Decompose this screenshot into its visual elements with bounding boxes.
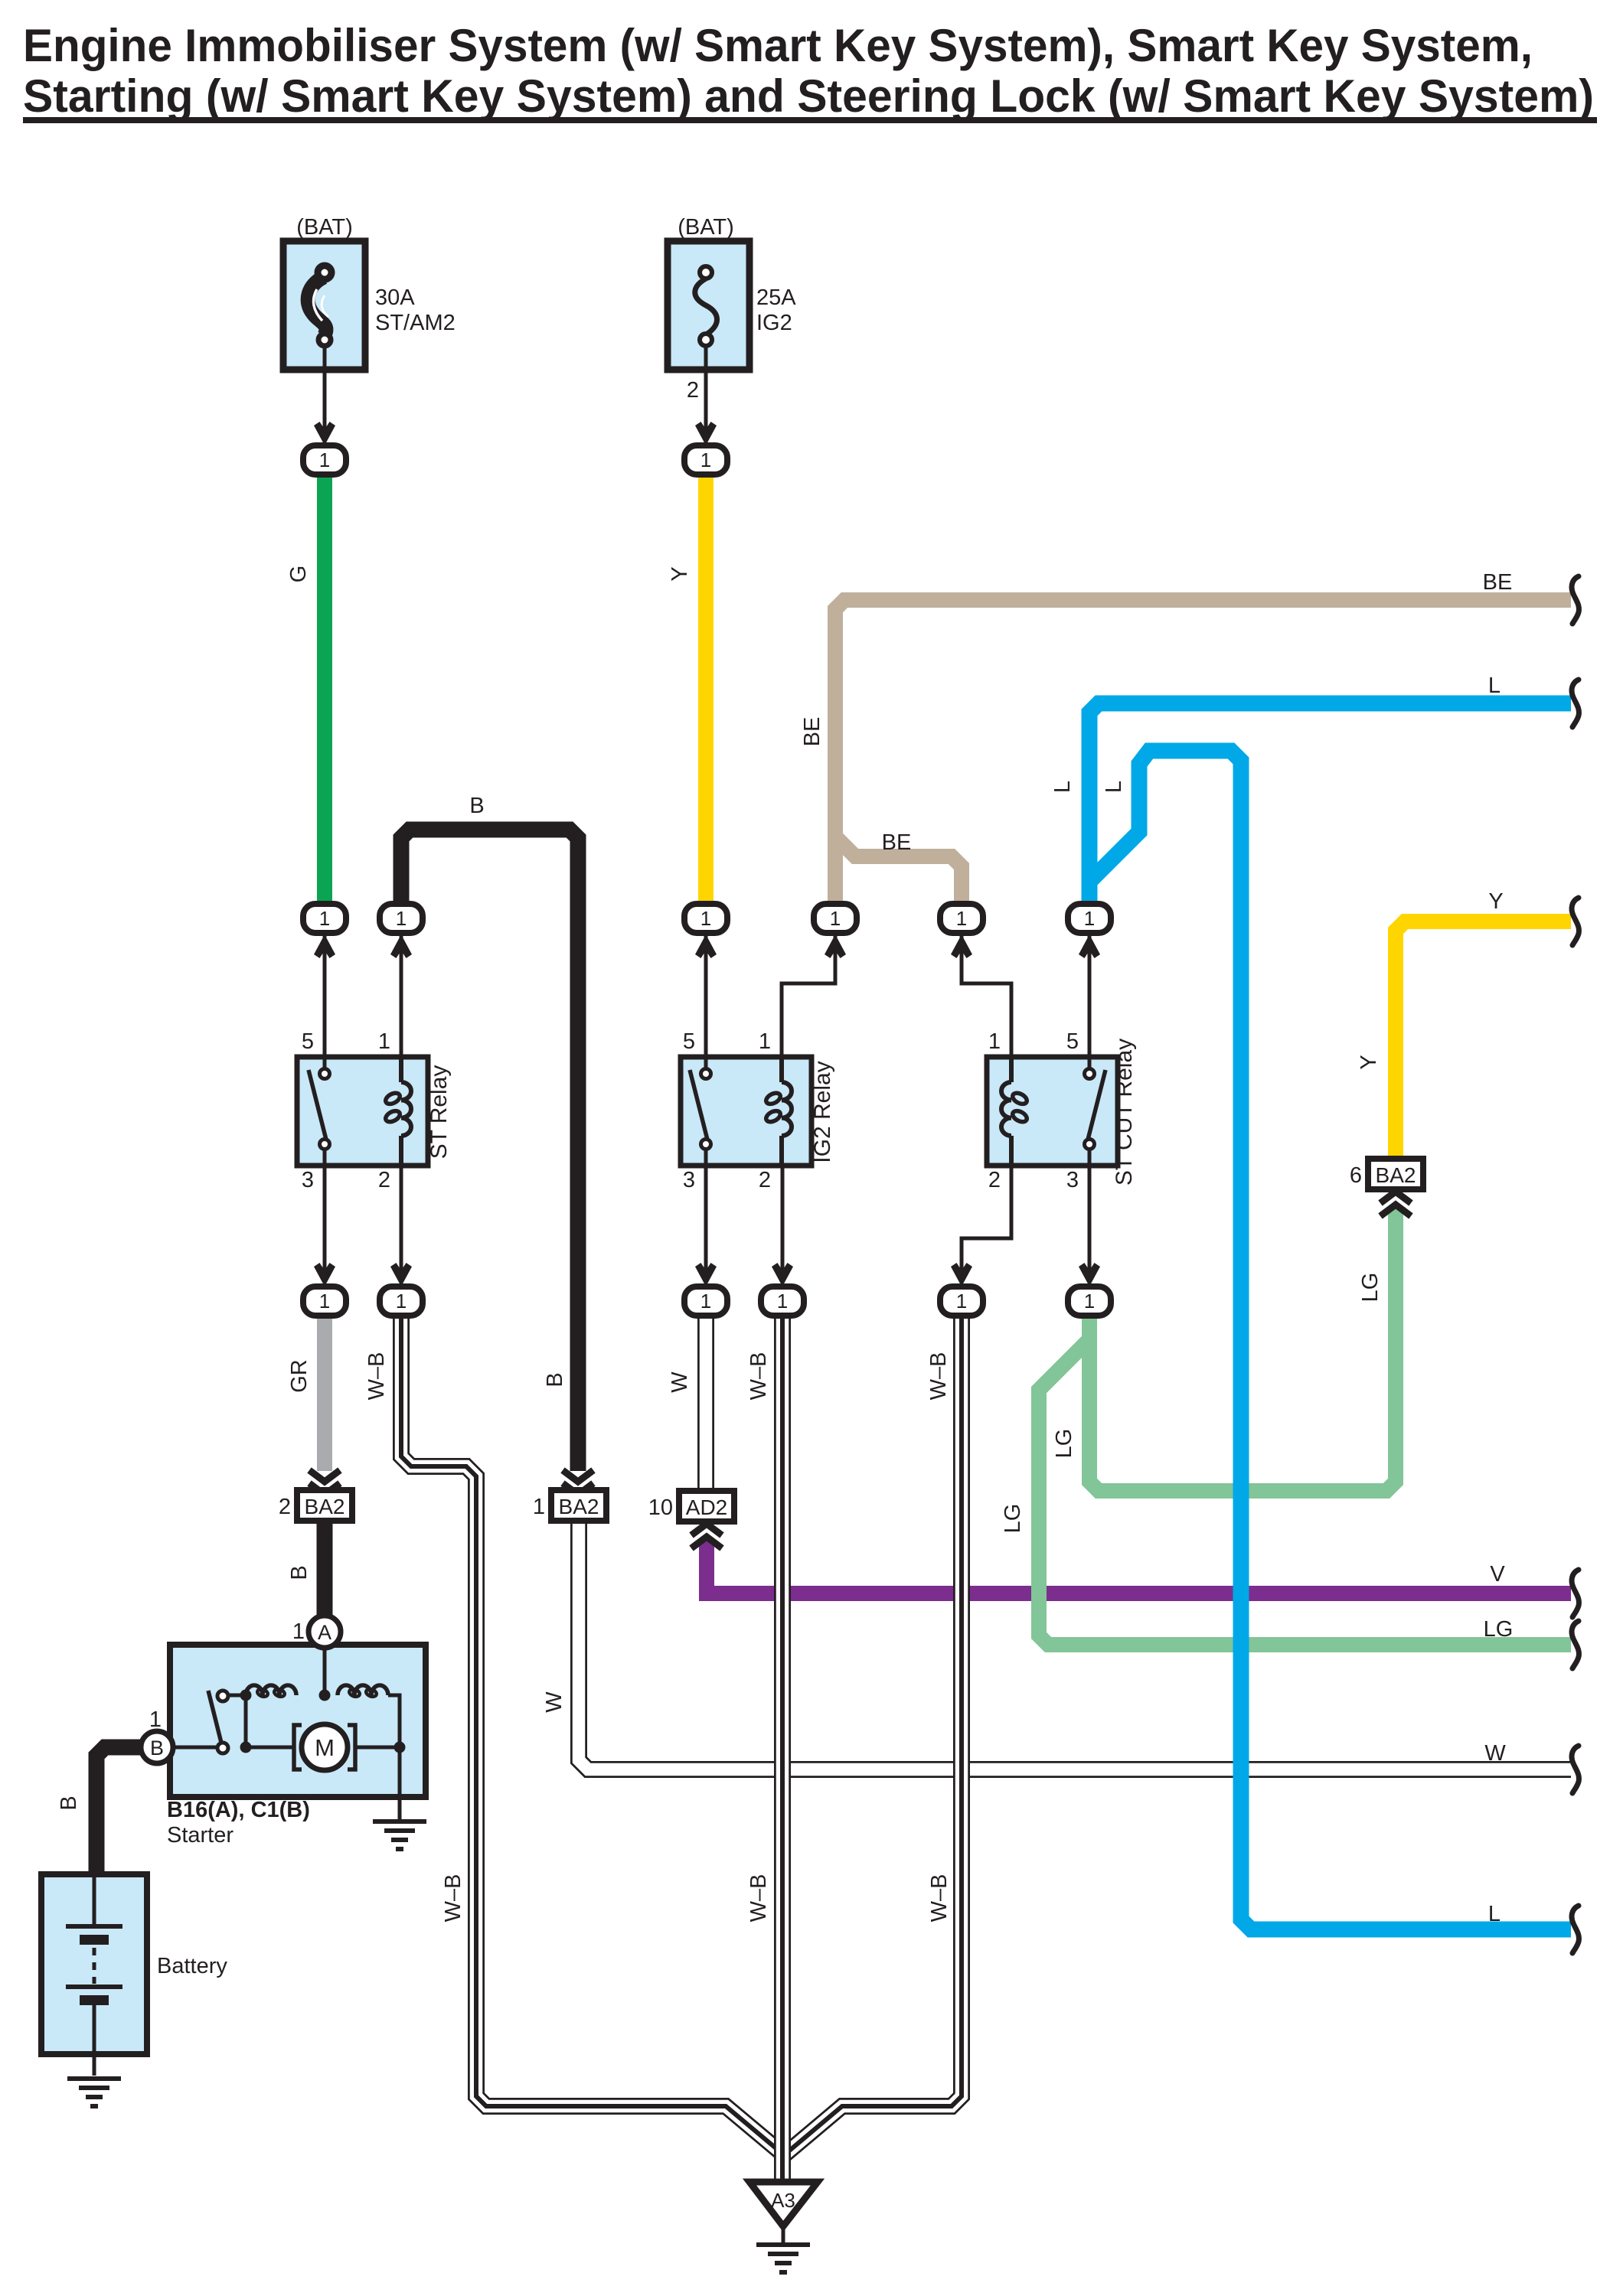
wire W white from 1 BA2 to right edge [579, 1520, 1571, 1769]
svg-text:2: 2 [687, 378, 699, 403]
relay ST CUT Relay [987, 1057, 1118, 1166]
wire W-B from ST relay connector to ground A3 [401, 1314, 782, 2154]
svg-text:2: 2 [378, 1168, 390, 1192]
svg-text:Starter: Starter [167, 1823, 233, 1848]
svg-text:Starting (w/ Smart Key System): Starting (w/ Smart Key System) and Steer… [23, 70, 1594, 122]
svg-text:5: 5 [302, 1029, 314, 1054]
wire IG2 relay pin 2 to connector [781, 1166, 785, 1270]
break squiggle Y [1572, 898, 1579, 945]
svg-text:LG: LG [1358, 1273, 1383, 1303]
break squiggle W [1572, 1746, 1579, 1793]
svg-text:A3: A3 [771, 2189, 795, 2212]
connector 1 row2 x1256 [940, 904, 983, 933]
svg-text:B: B [469, 794, 484, 818]
svg-text:LG: LG [1052, 1429, 1076, 1459]
svg-text:1: 1 [988, 1029, 1001, 1054]
battery [41, 1874, 147, 2076]
svg-text:1: 1 [759, 1029, 771, 1054]
svg-text:BE: BE [800, 717, 825, 747]
svg-text:W–B: W–B [441, 1874, 465, 1923]
fuse 25A IG2 [668, 241, 749, 370]
wire connector to IG2 relay pin 5 [704, 935, 708, 1057]
svg-text:1: 1 [700, 448, 711, 471]
relay IG2 Relay [681, 1057, 811, 1166]
connector 1 below fuse IG2 [684, 445, 727, 475]
wire connector to ST relay pin 1 [400, 935, 403, 1057]
svg-text:L: L [1488, 673, 1501, 698]
svg-text:2: 2 [759, 1168, 771, 1192]
wire B thick from ST relay connector to 1 BA2 [401, 830, 578, 1471]
svg-text:ST CUT Relay: ST CUT Relay [1112, 1039, 1137, 1186]
svg-text:ST Relay: ST Relay [426, 1065, 452, 1159]
svg-text:LG: LG [1484, 1617, 1514, 1642]
svg-text:1: 1 [1084, 1290, 1095, 1313]
wire ST CUT relay pin 2 to connector [962, 1166, 1011, 1270]
svg-text:M: M [315, 1734, 335, 1761]
connector 1 row2 x1423 [1068, 904, 1111, 933]
starter B16(A), C1(B) [170, 1645, 426, 1820]
svg-text:W–B: W–B [926, 1352, 951, 1401]
wire B thick from battery to starter [96, 1747, 142, 1876]
svg-text:IG2: IG2 [756, 311, 792, 335]
svg-text:1: 1 [292, 1619, 305, 1644]
svg-text:B: B [150, 1737, 164, 1760]
connector 1 row3 x424 [303, 1287, 346, 1316]
wire V violet from AD2 to right edge [699, 1534, 1571, 1593]
svg-text:GR: GR [287, 1359, 312, 1393]
svg-text:W–B: W–B [746, 1352, 771, 1401]
svg-text:Engine Immobiliser System (w/: Engine Immobiliser System (w/ Smart Key … [23, 20, 1533, 71]
svg-text:(BAT): (BAT) [678, 215, 734, 240]
connector 1 row3 x524 [380, 1287, 423, 1316]
ground battery [67, 2079, 121, 2106]
svg-text:ST/AM2: ST/AM2 [375, 311, 456, 335]
fuse 30A ST/AM2 [283, 241, 365, 370]
svg-text:W: W [668, 1371, 692, 1393]
wire ST relay pin 3 to connector [323, 1166, 327, 1270]
svg-text:Y: Y [1357, 1055, 1381, 1069]
connector 1 row3 x1256 [940, 1287, 983, 1316]
ground starter [373, 1821, 426, 1849]
wire W white from IG2 relay connector to 10 AD2 [697, 1314, 714, 1492]
connector 1 row2 x424 [303, 904, 346, 933]
svg-text:1: 1 [319, 907, 330, 930]
svg-text:W–B: W–B [746, 1874, 771, 1923]
svg-text:1: 1 [956, 907, 967, 930]
svg-text:L: L [1050, 781, 1075, 793]
svg-text:Y: Y [1488, 889, 1503, 914]
wire W-B from IG2 relay connector to ground A3 [774, 1314, 791, 2180]
wire ST relay pin 2 to connector [400, 1166, 403, 1270]
wire fuse ST/AM2 to connector [323, 360, 327, 442]
wire LG light green from ST CUT relay connector to right edge [1039, 1209, 1571, 1645]
svg-text:5: 5 [1066, 1029, 1079, 1054]
connector A [309, 1616, 341, 1648]
break squiggle V [1572, 1570, 1579, 1617]
svg-text:LG: LG [1001, 1504, 1025, 1534]
svg-text:(BAT): (BAT) [296, 215, 353, 240]
connector 1 row3 x1022 [761, 1287, 804, 1316]
svg-text:5: 5 [683, 1029, 695, 1054]
wire Y yellow from right edge to connector 6 BA2 [1396, 921, 1571, 1162]
svg-text:B16(A), C1(B): B16(A), C1(B) [167, 1798, 310, 1822]
svg-text:1: 1 [378, 1029, 390, 1054]
svg-text:2: 2 [279, 1495, 291, 1519]
wire L blue long branch to bottom right edge [1089, 751, 1571, 1929]
svg-text:W: W [542, 1691, 567, 1713]
svg-text:BA2: BA2 [559, 1495, 599, 1518]
svg-text:W–B: W–B [364, 1352, 389, 1401]
svg-text:B: B [57, 1795, 81, 1810]
svg-text:G: G [286, 566, 311, 583]
break squiggle BE [1572, 576, 1579, 624]
wire BE beige to right edge [835, 600, 1571, 907]
svg-text:6: 6 [1350, 1163, 1362, 1188]
svg-text:L: L [1102, 781, 1126, 793]
svg-text:1: 1 [700, 1290, 711, 1313]
relay ST Relay [297, 1057, 428, 1166]
svg-text:B: B [543, 1372, 567, 1387]
wire L blue to ST CUT relay connector [1089, 703, 1571, 907]
wire connector to IG2 relay pin 1 [782, 935, 835, 1057]
svg-text:10: 10 [648, 1495, 673, 1520]
title [23, 20, 1597, 123]
connector B [141, 1731, 173, 1763]
svg-text:W: W [1484, 1741, 1506, 1766]
svg-text:BA2: BA2 [1376, 1163, 1416, 1187]
connector 1 row2 x524 [380, 904, 423, 933]
svg-text:1: 1 [319, 448, 330, 471]
svg-text:1: 1 [830, 907, 841, 930]
wire G green from fuse ST/AM2 to ST relay connector [317, 473, 332, 907]
connector 1 below fuse ST/AM2 [303, 445, 346, 475]
wire connector to ST CUT relay pin 5 [1088, 935, 1092, 1057]
svg-text:3: 3 [683, 1168, 695, 1192]
wire IG2 relay pin 3 to connector [704, 1166, 708, 1270]
svg-text:B: B [287, 1565, 312, 1580]
svg-text:1: 1 [396, 907, 407, 930]
connector 1 BA2 [563, 1483, 593, 1495]
svg-text:2: 2 [988, 1168, 1001, 1192]
svg-text:1: 1 [956, 1290, 967, 1313]
break squiggle L [1572, 680, 1579, 727]
connector 1 row3 x1423 [1068, 1287, 1111, 1316]
svg-text:1: 1 [396, 1290, 407, 1313]
wire W-B from ST CUT relay connector to ground A3 [784, 1314, 962, 2155]
svg-text:Y: Y [668, 566, 692, 581]
svg-text:V: V [1490, 1562, 1505, 1587]
wire connector to ST CUT relay pin 1 [962, 935, 1011, 1057]
svg-text:AD2: AD2 [686, 1495, 727, 1519]
svg-text:1: 1 [700, 907, 711, 930]
svg-text:3: 3 [302, 1168, 314, 1192]
svg-text:BE: BE [882, 830, 912, 855]
connector 2 BA2 [309, 1483, 340, 1495]
connector 1 row2 x922 [684, 904, 727, 933]
svg-text:25A: 25A [756, 285, 796, 310]
svg-text:A: A [318, 1621, 331, 1644]
connector 1 row2 x1091 [814, 904, 857, 933]
wire Y yellow from fuse IG2 to IG2 relay connector [698, 473, 714, 907]
svg-text:1: 1 [149, 1707, 162, 1732]
svg-text:IG2 Relay: IG2 Relay [810, 1061, 835, 1163]
svg-text:1: 1 [1084, 907, 1095, 930]
wire B thick from 2 BA2 to starter [317, 1518, 333, 1617]
svg-text:1: 1 [319, 1290, 330, 1313]
connector 1 row3 x922 [684, 1287, 727, 1316]
svg-text:Battery: Battery [157, 1954, 227, 1978]
wire connector to ST relay pin 5 [323, 935, 327, 1057]
break squiggle L [1572, 1906, 1579, 1953]
wire GR gray from ST relay to connector BA2 [317, 1314, 332, 1471]
svg-text:BE: BE [1483, 570, 1513, 595]
svg-text:1: 1 [777, 1290, 788, 1313]
connector 6 BA2 [1368, 1159, 1423, 1189]
wire fuse IG2 to connector [704, 360, 708, 442]
svg-text:W–B: W–B [927, 1874, 952, 1923]
svg-text:30A: 30A [375, 285, 415, 310]
svg-text:BA2: BA2 [305, 1495, 345, 1518]
svg-text:L: L [1488, 1902, 1501, 1926]
connector 10 AD2 [679, 1491, 734, 1521]
svg-text:3: 3 [1066, 1168, 1079, 1192]
ground A3 [749, 2182, 818, 2243]
svg-text:1: 1 [533, 1495, 545, 1519]
break squiggle LG [1572, 1621, 1579, 1668]
wire ST CUT relay pin 3 to connector [1088, 1166, 1092, 1270]
